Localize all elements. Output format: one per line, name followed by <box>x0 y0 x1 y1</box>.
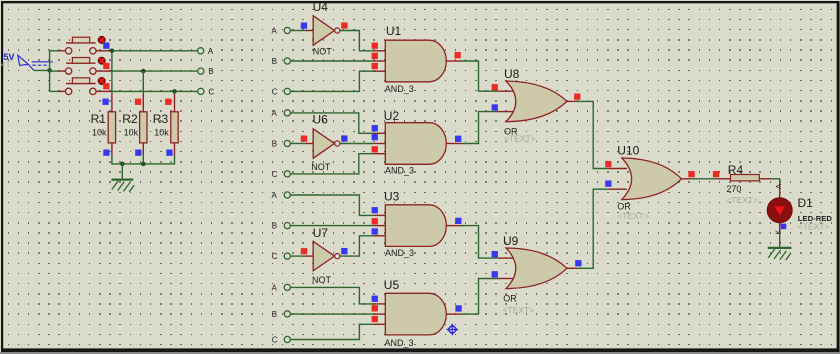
svg-text:U1: U1 <box>386 24 402 38</box>
pin U5 input3 <box>373 323 385 325</box>
terminal B (left) <box>198 67 214 76</box>
and gate U3 <box>384 189 446 258</box>
pin state square U3 pin3 (blue) <box>372 228 378 234</box>
wire bus to SW2 <box>50 70 59 72</box>
or gate U8 <box>504 67 567 143</box>
svg-text:C: C <box>272 87 278 96</box>
switch SW1 actuator <box>98 36 105 43</box>
svg-text:C: C <box>272 252 278 261</box>
pin state square U9 pin2 (blue) <box>492 271 498 277</box>
svg-text:B: B <box>272 139 277 148</box>
pin state square U1 pin2 (red) <box>372 53 378 59</box>
pin U5 output <box>446 313 462 315</box>
svg-text:AND_3: AND_3 <box>385 166 414 176</box>
and gate U2 <box>384 109 446 176</box>
pin state square U2 pin2 (blue) <box>372 134 378 140</box>
svg-text:B: B <box>272 222 277 231</box>
svg-text:A: A <box>272 191 278 200</box>
svg-text:AND_3: AND_3 <box>385 338 414 348</box>
ground (right) <box>768 248 792 260</box>
svg-text:U6: U6 <box>313 113 329 127</box>
svg-text:R2: R2 <box>122 112 138 126</box>
terminal A group2 <box>272 109 291 118</box>
pin U5 input1 <box>373 303 385 305</box>
wire node A down to R1 <box>111 51 113 94</box>
wire C3 to U7 <box>290 255 305 257</box>
svg-text:<TEXT>: <TEXT> <box>617 211 649 221</box>
pin state square R2 top (red) <box>135 99 141 105</box>
svg-text:U3: U3 <box>384 189 400 203</box>
or gate U9 <box>503 234 567 315</box>
svg-text:270: 270 <box>726 184 741 194</box>
pin state square U5 pin1 (blue) <box>372 296 378 302</box>
pin state square U5 pin3 (red) <box>372 316 378 322</box>
wire row C to terminal C <box>112 90 198 92</box>
pin U1 input3 <box>373 70 385 72</box>
svg-text:B: B <box>208 67 213 76</box>
LED D1 <box>767 196 832 232</box>
pin state square U3 output (blue) <box>455 218 461 224</box>
wire U9 out to U10 pin2 <box>577 189 609 268</box>
wire row A to terminal A <box>112 50 198 52</box>
svg-text:NOT: NOT <box>312 275 332 285</box>
svg-text:NOT: NOT <box>311 162 331 172</box>
wire U7 output to U3 pin3 <box>340 236 373 256</box>
svg-text:NOT: NOT <box>313 46 333 56</box>
svg-text:10k: 10k <box>92 128 107 138</box>
svg-text:B: B <box>272 57 277 66</box>
pin state square U8 output (red) <box>574 94 580 100</box>
pin U3 input3 <box>373 235 385 237</box>
wire A2 to U2 pin1 <box>290 113 373 133</box>
pin R3 top <box>174 94 176 112</box>
svg-text:U7: U7 <box>313 226 329 240</box>
pin state square U3 pin1 (blue) <box>372 207 378 213</box>
svg-text:OR: OR <box>503 293 517 303</box>
pin state square U3 pin2 (red) <box>372 218 378 224</box>
pin R1 top <box>111 94 113 112</box>
switch SW2 actuator <box>98 57 105 64</box>
wire ground stem <box>121 164 123 179</box>
svg-text:10k: 10k <box>154 128 169 138</box>
terminal A group4 <box>272 283 291 292</box>
wire LED to ground <box>779 233 781 248</box>
junction node B / R2 <box>141 69 146 74</box>
wire U5 out to U9 pin2 <box>462 279 498 315</box>
pin state square U6 output (blue) <box>341 135 347 141</box>
svg-text:<T: <T <box>1 59 11 69</box>
pin state square R1 top (blue) <box>102 99 108 105</box>
pin U3 input2 <box>373 225 385 227</box>
pin U5 input2 <box>373 313 385 315</box>
pin U8 input2 <box>498 111 514 113</box>
wire C4 to U5 pin3 <box>290 324 373 339</box>
pin R4 left <box>718 178 731 180</box>
wire B3 to U3 pin2 <box>290 225 373 227</box>
svg-text:U4: U4 <box>313 0 329 14</box>
wire bus to SW3 <box>50 90 59 92</box>
pin R2 top <box>142 94 144 112</box>
pin state square U1 pin3 (red) <box>372 63 378 69</box>
pin name A (LED anode) <box>774 184 783 189</box>
pin U2 input3 <box>373 153 385 155</box>
svg-text:<TEXT>: <TEXT> <box>504 134 536 144</box>
switch SW3 <box>59 78 112 95</box>
svg-text:U9: U9 <box>503 234 519 248</box>
wire battery to bus <box>34 69 50 71</box>
terminal A group3 <box>272 191 291 200</box>
pin U1 input2 <box>373 60 385 62</box>
pin U7 input <box>305 255 313 257</box>
junction node C / R3 <box>172 89 177 94</box>
switch SW1 <box>59 37 112 54</box>
power source 5V battery B1 <box>1 52 53 70</box>
pin U9 input2 <box>498 278 514 280</box>
wire R2 bottom to ground bus <box>142 155 144 164</box>
pin state square U5 output (blue) <box>455 305 461 311</box>
pin state square SW1 (blue) <box>103 43 109 49</box>
pin U10 output <box>682 178 691 180</box>
pin state square U8 pin2 (blue) <box>492 104 498 110</box>
pin LED bottom <box>779 223 781 233</box>
pin U3 output <box>446 225 462 227</box>
resistor R4 <box>726 163 759 205</box>
pin U8 output <box>567 100 577 102</box>
wire U1 out to U8 pin1 <box>462 61 498 91</box>
pin state square U4 input (blue) <box>301 23 307 29</box>
terminal A (left) <box>198 47 214 56</box>
and gate U5 <box>384 278 446 348</box>
pin state square U9 output (blue) <box>575 260 581 266</box>
pin state square U2 pin3 (red) <box>372 146 378 152</box>
pin state square LED cathode (blue) <box>781 224 787 230</box>
svg-text:A: A <box>774 184 783 189</box>
pin U6 input <box>305 143 313 145</box>
resistor R3 <box>153 112 178 143</box>
svg-text:U10: U10 <box>617 143 639 157</box>
pin R2 bottom <box>142 143 144 155</box>
pin state square U4 output (red) <box>341 22 347 28</box>
terminal B group1 <box>272 57 291 66</box>
svg-text:D1: D1 <box>798 196 814 210</box>
pin U1 output <box>446 60 462 62</box>
svg-text:10k: 10k <box>124 128 139 138</box>
pin state square R4 left (red) <box>713 171 719 177</box>
pin LED top <box>779 187 781 199</box>
wire C1 to U1 pin3 <box>290 71 373 91</box>
pin state square U1 pin1 (red) <box>372 43 378 49</box>
pin U2 input2 <box>373 143 385 145</box>
pin state square U9 pin1 (blue) <box>492 251 498 257</box>
not gate U4 <box>313 0 340 56</box>
origin marker <box>447 324 459 336</box>
pin U4 input <box>305 30 313 32</box>
svg-text:R1: R1 <box>91 112 107 126</box>
resistor R1 <box>91 112 116 143</box>
wire B4 to U5 pin2 <box>290 313 373 315</box>
wire C2 to U2 pin3 <box>290 154 373 174</box>
svg-text:C: C <box>208 87 214 96</box>
not gate U6 <box>311 113 340 172</box>
terminal C group2 <box>272 170 291 179</box>
wire node B down to R2 <box>142 71 144 94</box>
svg-text:A: A <box>272 26 278 35</box>
pin U10 input2 <box>608 188 627 190</box>
pin U2 input1 <box>373 132 385 134</box>
junction node A / R1 <box>110 49 115 54</box>
pin state square U10 pin2 (blue) <box>605 181 611 187</box>
pin state square U1 output (red) <box>455 52 461 58</box>
pin state square R3 top (red) <box>165 99 171 105</box>
wire U10 out to R4 <box>691 178 718 180</box>
terminal B group2 <box>272 139 291 148</box>
junction battery bus <box>47 68 52 73</box>
svg-text:U5: U5 <box>384 278 400 292</box>
terminal C (left) <box>198 87 215 96</box>
svg-text:A: A <box>272 109 278 118</box>
junction ground bus mid <box>141 162 146 167</box>
wire bus to SW1 <box>50 50 59 52</box>
switch SW2 <box>59 58 112 75</box>
terminal C group1 <box>272 87 291 96</box>
pin U1 input1 <box>373 50 385 52</box>
wire U6 output to U2 pin2 <box>340 143 373 145</box>
wire U8 out to U10 pin1 <box>577 101 609 168</box>
svg-text:<TEXT>: <TEXT> <box>503 305 535 315</box>
pin state square U2 output (blue) <box>455 136 461 142</box>
pin state square U7 input (red) <box>301 248 307 254</box>
svg-text:OR: OR <box>617 201 631 211</box>
wire row B to terminal B <box>112 70 198 72</box>
wire A1 to U4 <box>290 30 305 32</box>
pin U2 output <box>446 143 462 145</box>
svg-text:AND_3: AND_3 <box>385 248 414 258</box>
pin U10 input1 <box>608 168 627 170</box>
pin U8 input1 <box>498 90 514 92</box>
svg-text:R4: R4 <box>728 163 744 177</box>
pin R3 bottom <box>174 143 176 155</box>
terminal B group4 <box>272 310 291 319</box>
wire B2 to U6 <box>290 143 305 145</box>
svg-text:<TEXT>: <TEXT> <box>726 195 758 205</box>
pin state square U7 output (blue) <box>341 248 347 254</box>
wire B1 to U1 pin2 <box>290 60 373 62</box>
resistor R2 <box>122 112 147 143</box>
pin name K (LED cathode) <box>776 230 783 235</box>
pin state square R2 bottom (blue) <box>135 150 141 156</box>
svg-text:A: A <box>272 283 278 292</box>
wire power bus vertical <box>49 51 51 92</box>
svg-text:U8: U8 <box>504 67 520 81</box>
svg-text:AND_3: AND_3 <box>385 84 414 94</box>
pin U9 input1 <box>498 257 514 259</box>
pin state square U10 output (red) <box>688 171 694 177</box>
terminal A group1 <box>272 26 291 35</box>
pin state square U5 pin2 (red) <box>372 305 378 311</box>
pin state square U6 input (red) <box>301 136 307 142</box>
wire A4 to U5 pin1 <box>290 287 373 304</box>
svg-text:B: B <box>272 310 277 319</box>
wire U2 out to U8 pin2 <box>462 112 498 144</box>
svg-text:C: C <box>272 335 278 344</box>
pin state square SW3 (red) <box>103 83 109 89</box>
terminal B group3 <box>272 222 291 231</box>
wire A3 to U3 pin1 <box>290 195 373 215</box>
wire R4 to LED <box>771 179 780 187</box>
svg-text:C: C <box>272 170 278 179</box>
junction ground bus left <box>120 162 125 167</box>
svg-text:U2: U2 <box>384 109 400 123</box>
terminal C group4 <box>272 335 291 344</box>
pin R4 right <box>759 178 771 180</box>
pin state square R1 bottom (blue) <box>103 150 109 156</box>
ground (left) <box>111 180 134 192</box>
or gate U10 <box>617 143 681 221</box>
terminal C group3 <box>272 252 291 261</box>
wire U4 output to U1 pin1 <box>340 31 373 51</box>
pin U3 input1 <box>373 214 385 216</box>
and gate U1 <box>385 24 447 94</box>
pin state square SW2 (red) <box>103 63 109 69</box>
pin state square U10 pin1 (red) <box>605 161 611 167</box>
pin state square U2 pin1 (blue) <box>372 125 378 131</box>
svg-text:<TEXT>: <TEXT> <box>798 222 830 232</box>
pin R1 bottom <box>111 143 113 155</box>
pin state square U8 pin1 (red) <box>492 84 498 90</box>
pin U9 output <box>567 267 577 269</box>
wire R1 bottom to ground bus <box>112 155 175 164</box>
not gate U7 <box>312 226 340 285</box>
svg-text:A: A <box>208 47 214 56</box>
pin state square R3 bottom (blue) <box>166 150 172 156</box>
wire node C down to R3 <box>174 91 176 93</box>
svg-text:R3: R3 <box>153 112 169 126</box>
switch SW3 actuator <box>98 78 105 85</box>
wire U3 out to U9 pin1 <box>462 226 498 259</box>
